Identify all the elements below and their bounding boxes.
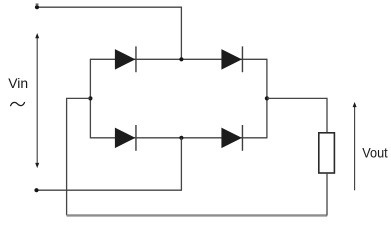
- diode D2 (top-right): [221, 46, 242, 72]
- node: right bridge output: [265, 96, 269, 100]
- wire: right node to load resistor top: [267, 98, 327, 132]
- wire: bottom bridge row: [90, 137, 267, 139]
- node A: AC input top terminal: [35, 4, 39, 10]
- wire: load resistor bottom lead to rail: [326, 173, 328, 215]
- svg-text:Vin: Vin: [8, 75, 28, 91]
- node: left bridge output: [88, 96, 92, 100]
- resistor R load: [319, 133, 335, 173]
- wire: top bridge row: [90, 58, 267, 60]
- wire: left bridge edge: [89, 59, 91, 139]
- wire: right bridge edge: [266, 59, 268, 139]
- node: bottom bridge junction: [179, 136, 183, 140]
- diode D3 (bottom-left): [115, 125, 136, 151]
- diode D1 (top-left): [115, 46, 136, 72]
- AC source tilde symbol: [11, 102, 25, 105]
- wire: bottom bridge junction to bottom input terminal: [37, 138, 182, 190]
- node: top bridge junction: [179, 57, 183, 61]
- svg-text:Vout: Vout: [362, 145, 387, 161]
- node B: AC input bottom terminal: [34, 188, 38, 192]
- Vin measurement arrow (double-headed): [35, 33, 39, 168]
- Vout measurement arrow (up): [353, 102, 357, 190]
- wire: bottom return rail: [67, 214, 328, 216]
- wire: left node to bottom rail: [67, 98, 91, 215]
- diode D4 (bottom-right): [221, 125, 242, 151]
- wire: top input terminal to top bridge junction: [37, 7, 181, 59]
